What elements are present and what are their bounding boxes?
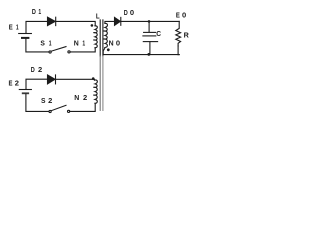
transformer core bbox=[100, 20, 103, 111]
svg-text:E: E bbox=[9, 23, 13, 32]
wire S2 to N2 bottom bbox=[70, 103, 95, 111]
svg-text:D: D bbox=[31, 65, 35, 74]
svg-text:2: 2 bbox=[48, 96, 52, 105]
svg-text:2: 2 bbox=[38, 65, 42, 74]
svg-text:1: 1 bbox=[82, 38, 85, 47]
wire D0 cathode along output top rail bbox=[121, 20, 179, 22]
svg-text:2: 2 bbox=[15, 78, 19, 87]
svg-text:0: 0 bbox=[182, 10, 186, 19]
polarity dot N1 bbox=[91, 24, 94, 27]
svg-text:S: S bbox=[41, 96, 46, 105]
diode D2 bbox=[48, 75, 56, 84]
svg-text:0: 0 bbox=[130, 8, 134, 17]
svg-text:1: 1 bbox=[38, 7, 41, 16]
svg-text:1: 1 bbox=[16, 23, 19, 32]
wire D2 cathode to N2 top bbox=[56, 78, 95, 81]
diode D0 bbox=[115, 17, 121, 25]
svg-text:D: D bbox=[124, 8, 128, 17]
wire N0 top to D0 anode bbox=[105, 21, 115, 23]
svg-text:1: 1 bbox=[49, 39, 52, 48]
battery E2 bbox=[19, 90, 31, 94]
svg-text:0: 0 bbox=[116, 38, 120, 47]
svg-text:E: E bbox=[176, 10, 180, 19]
diode D1 bbox=[48, 17, 56, 25]
junction dot capacitor bottom bbox=[147, 53, 150, 56]
svg-text:S: S bbox=[40, 39, 45, 48]
output bottom rail bbox=[103, 54, 179, 56]
wire N0 bottom to output rail bbox=[103, 48, 105, 55]
wire S1 to N1 bottom bbox=[70, 48, 95, 52]
wire E1 negative lead down to bottom rail bbox=[26, 39, 49, 52]
switch S2 bbox=[49, 105, 70, 112]
svg-text:2: 2 bbox=[83, 93, 87, 102]
svg-text:N: N bbox=[109, 38, 114, 47]
wire resistor bottom corner bbox=[178, 54, 179, 56]
battery E1 bbox=[19, 34, 32, 38]
winding N2 bbox=[93, 80, 97, 103]
wire D1 cathode to N1 top bbox=[56, 21, 95, 25]
wire E1 positive lead to top rail bbox=[26, 21, 47, 33]
switch S1 bbox=[49, 47, 70, 54]
svg-text:L: L bbox=[96, 12, 100, 21]
svg-text:N: N bbox=[74, 93, 79, 102]
svg-text:C: C bbox=[156, 29, 161, 38]
polarity dot N2 bbox=[92, 77, 95, 80]
wire E2 negative lead down to bottom rail bbox=[26, 94, 49, 111]
polarity dot N0 bbox=[107, 48, 110, 51]
svg-text:D: D bbox=[32, 7, 36, 16]
resistor R bbox=[176, 21, 181, 54]
wire E2 positive lead to D2 rail bbox=[26, 79, 47, 89]
svg-text:R: R bbox=[184, 31, 190, 40]
junction dot capacitor top bbox=[148, 20, 151, 23]
winding N0 bbox=[103, 23, 107, 47]
svg-text:N: N bbox=[74, 38, 79, 47]
svg-text:E: E bbox=[9, 78, 13, 87]
capacitor C bbox=[143, 21, 158, 54]
winding N1 bbox=[93, 26, 97, 48]
